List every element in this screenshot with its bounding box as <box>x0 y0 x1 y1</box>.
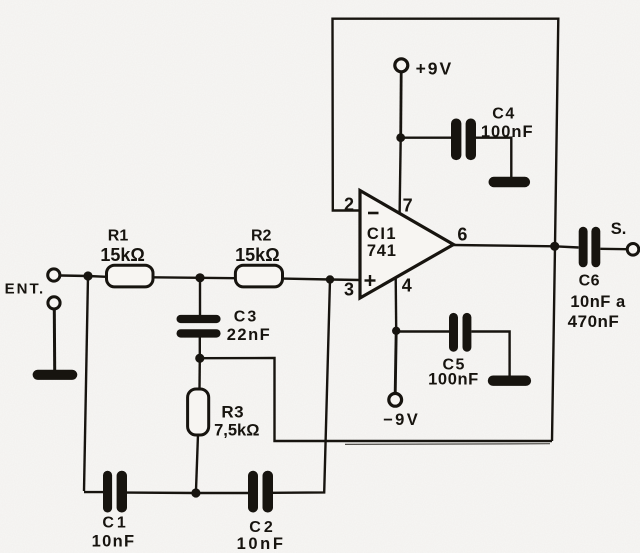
node output/C6 junction <box>550 242 559 251</box>
svg-text:ENT.: ENT. <box>5 281 46 298</box>
wire: R3 to node E <box>196 435 198 494</box>
svg-text:C6: C6 <box>579 273 600 290</box>
svg-text:−9V: −9V <box>383 411 420 429</box>
value 7,5k ohm <box>214 422 259 440</box>
wire: double-stroke of feedback line <box>345 443 550 446</box>
node +9V/C4 junction <box>396 133 405 142</box>
label -9V <box>383 411 420 429</box>
svg-text:CI1: CI1 <box>367 225 397 243</box>
ground (C5) <box>488 376 531 386</box>
wire: -9V node to C5 <box>396 330 449 332</box>
pin 4 <box>402 276 412 296</box>
value 10nF (C2) <box>237 535 286 553</box>
node B (R1/R2/C3 junction) <box>195 273 204 282</box>
terminal -9V <box>389 393 402 406</box>
capacitor C5 <box>449 313 471 352</box>
wire: C4 to ground <box>476 138 511 178</box>
svg-text:+9V: +9V <box>416 59 454 79</box>
value 470nF <box>568 312 620 331</box>
label 741 <box>367 242 397 260</box>
label CI1 <box>367 225 397 243</box>
ground (input) <box>33 370 78 380</box>
resistor R1 <box>107 265 154 287</box>
capacitor C6 <box>579 227 601 267</box>
svg-text:100nF: 100nF <box>481 123 534 141</box>
label R2 <box>251 228 272 245</box>
svg-text:6: 6 <box>457 225 467 245</box>
pin 2 <box>344 195 354 215</box>
svg-text:15kΩ: 15kΩ <box>235 245 279 265</box>
value 100nF (C5) <box>428 371 479 389</box>
svg-text:R2: R2 <box>251 228 272 245</box>
wire: C6 to output terminal S <box>600 248 626 251</box>
node -9V/C5 junction <box>392 327 400 335</box>
value 22nF <box>227 326 272 344</box>
op-amp non-inverting input mark <box>365 275 376 286</box>
node C (pin 3 junction) <box>326 275 334 283</box>
wire: node E to C2 <box>196 492 248 494</box>
wire: node B down to C3 <box>199 278 201 316</box>
svg-text:C1: C1 <box>102 515 128 532</box>
node E (C1/C2/R3 junction) <box>191 488 200 497</box>
capacitor C1 <box>103 471 127 513</box>
label C2 <box>249 519 275 536</box>
terminal S (output) <box>627 244 639 256</box>
wire: C2 to bottom-right corner up to node C <box>273 280 330 493</box>
wire: input terminal to node A to R1 <box>61 276 107 277</box>
svg-text:C3: C3 <box>234 309 258 326</box>
resistor R3 <box>188 389 209 435</box>
capacitor C2 <box>248 471 273 513</box>
wire: +9V node to C4 <box>401 136 451 138</box>
label R3 <box>221 403 244 422</box>
node A (input junction) <box>83 271 92 280</box>
wire: bottom rail left segment to C1 <box>84 491 103 493</box>
op-amp U1 (CI1 741) <box>360 191 454 299</box>
svg-text:22nF: 22nF <box>227 326 272 344</box>
value 15k ohm (R2) <box>235 245 279 265</box>
svg-text:C4: C4 <box>492 106 515 123</box>
label C3 <box>234 309 258 326</box>
value 100nF (C4) <box>481 123 534 141</box>
svg-text:C2: C2 <box>249 519 275 536</box>
svg-text:S.: S. <box>611 220 627 238</box>
node D (C3/R3 junction) <box>195 354 204 363</box>
svg-text:470nF: 470nF <box>568 312 620 331</box>
svg-text:7,5kΩ: 7,5kΩ <box>214 422 259 440</box>
label C6 <box>579 273 600 290</box>
wire: C5 to ground <box>471 332 509 377</box>
wire: input ground stub <box>53 310 56 370</box>
ground (C4) <box>489 177 531 187</box>
svg-text:3: 3 <box>344 280 354 300</box>
terminal ENT (signal) <box>48 269 60 281</box>
label C1 <box>102 515 128 532</box>
value 15k ohm (R1) <box>100 245 144 265</box>
svg-text:10nF a: 10nF a <box>570 293 626 311</box>
wire: node D down to R3 <box>198 358 201 389</box>
resistor R2 <box>235 265 282 287</box>
op-amp inverting input mark <box>368 212 379 215</box>
wire: node A down to bottom rail <box>84 276 88 491</box>
terminal +9V <box>395 59 408 72</box>
svg-text:10nF: 10nF <box>237 535 286 553</box>
svg-text:2: 2 <box>344 195 354 215</box>
terminal ENT (ground) <box>48 297 60 309</box>
svg-text:7: 7 <box>403 196 413 216</box>
svg-text:R1: R1 <box>108 228 129 245</box>
svg-text:R3: R3 <box>221 403 244 422</box>
svg-text:100nF: 100nF <box>428 371 479 389</box>
value 10nF a <box>570 293 626 311</box>
capacitor C3 <box>177 315 221 338</box>
label C4 <box>492 106 515 123</box>
svg-text:741: 741 <box>367 242 397 260</box>
wire: +9V terminal down through node to pin 7 <box>400 72 402 215</box>
wire: R1 to node B to R2 <box>153 276 235 279</box>
label +9V <box>416 59 454 79</box>
wire: R2 to node C (pin 3) <box>283 279 361 280</box>
label C5 <box>442 357 465 374</box>
wire: pin 4 down through node to -9V terminal <box>395 277 396 395</box>
wire: op-amp output pin 6 to C6 <box>454 245 579 248</box>
label R1 <box>108 228 129 245</box>
wire: C1 to node E <box>127 491 196 494</box>
svg-text:15kΩ: 15kΩ <box>100 245 144 265</box>
pin 7 <box>403 196 413 216</box>
wire: feedback from node D right, down, to output rail <box>200 358 552 441</box>
wire: C3 to node D <box>199 337 201 358</box>
svg-text:10nF: 10nF <box>92 533 136 551</box>
label ENT. <box>5 281 46 298</box>
svg-text:4: 4 <box>402 276 412 296</box>
label S (output) <box>611 220 627 238</box>
wire: feedback loop box (pin 2, around top, down right side) <box>333 19 559 441</box>
capacitor C4 <box>451 119 476 161</box>
pin 6 <box>457 225 467 245</box>
pin 3 <box>344 280 354 300</box>
value 10nF (C1) <box>92 533 136 551</box>
